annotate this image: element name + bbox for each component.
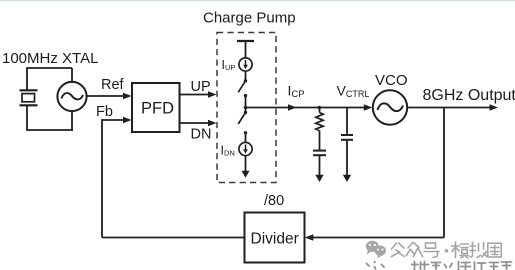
svg-text:Divider: Divider [251, 231, 299, 248]
wire: feedback bottom into divider (with arrowhead) [311, 237, 444, 239]
ground (arrow) branch 2 [343, 175, 351, 182]
top faint border line [0, 0, 515, 1]
wire: xtal loop left upper [26, 67, 28, 90]
wire: ICP output line from charge pump node to VCO (with mid arrowhead) [246, 107, 367, 109]
svg-text:8GHz Output: 8GHz Output [423, 87, 515, 104]
PFD block U1 [132, 83, 180, 132]
watermark text line 1: 公众号·模拟圈 (drawn as vector strokes) [392, 242, 502, 258]
svg-text:Charge Pump: Charge Pump [203, 10, 296, 27]
svg-text:PFD: PFD [141, 100, 174, 118]
divider block [245, 213, 305, 263]
switch S1 (UP) [244, 79, 247, 82]
wire: Fb feedback riser and entry into PFD (with arrowhead) [102, 120, 125, 238]
charge pump dashed boundary box [217, 33, 276, 183]
wire: IDN source to ground arrow [245, 156, 247, 171]
svg-text:UP: UP [191, 79, 211, 95]
wire: branch 2 top [346, 108, 348, 135]
svg-text:Fb: Fb [96, 104, 113, 120]
wire: VCO output line (with arrowhead) [407, 107, 491, 109]
node: charge pump output junction [244, 106, 248, 110]
ground (arrow) branch 1 [315, 175, 323, 182]
svg-text:/80: /80 [264, 193, 284, 209]
switch S2 (DN) [244, 111, 247, 114]
wire: divider output to Fb riser [102, 237, 245, 239]
svg-text:100MHz XTAL: 100MHz XTAL [2, 50, 98, 67]
resistor R1 (loop filter) [316, 113, 323, 131]
wire: supply to IUP source [245, 41, 247, 58]
crystal X1 [20, 90, 38, 105]
wire: DN from PFD to charge pump (with arrowhead) [180, 122, 211, 124]
wire: branch 1 top [319, 108, 321, 113]
wire: output node to DN switch [245, 108, 247, 113]
wire: osc top stub [71, 68, 73, 82]
wire: osc bottom stub [71, 111, 73, 131]
VCO oscillator circle [373, 90, 407, 124]
wire: UP switch to output node [245, 96, 247, 108]
svg-text:Ref: Ref [101, 77, 125, 93]
capacitor C1 (loop filter) [313, 150, 326, 152]
wire: C1 to ground [319, 155, 321, 175]
svg-text:VCO: VCO [375, 72, 408, 89]
wire: C2 to ground [346, 140, 348, 176]
power supply rail (T symbol) [237, 40, 254, 42]
current source IDN [239, 142, 252, 155]
current source IUP [239, 58, 252, 71]
capacitor C2 (loop filter) [341, 134, 353, 136]
wire: feedback drop from output node [443, 108, 445, 238]
wire: IUP source to UP switch [245, 71, 247, 80]
wire: xtal loop left lower [26, 106, 28, 131]
wire: R1 to C1 [319, 131, 321, 150]
ground (arrow) inside charge pump [242, 171, 250, 178]
watermark text line 2 (cut off at bottom edge) [367, 262, 512, 270]
watermark wechat icon [366, 241, 386, 259]
watermark middle dot [445, 249, 449, 253]
oscillator source (XTAL oscillator circle) [57, 82, 86, 111]
node: loop filter branch 1 junction [318, 106, 322, 110]
svg-text:DN: DN [191, 127, 212, 143]
wire: DN switch to IDN source [245, 133, 247, 143]
wire: xtal loop top [27, 67, 72, 69]
wire: xtal loop bottom [26, 129, 73, 131]
wire: UP from PFD to charge pump (with arrowhead) [180, 94, 211, 96]
wire: Ref into PFD (with arrowhead) [87, 95, 125, 97]
